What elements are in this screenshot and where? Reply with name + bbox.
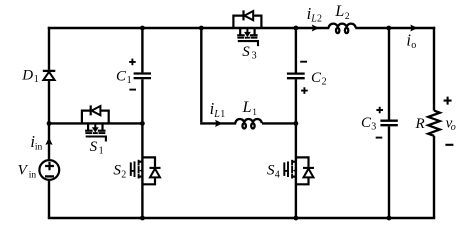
- svg-text:C: C: [311, 70, 322, 86]
- svg-text:in: in: [35, 143, 43, 153]
- svg-text:1: 1: [252, 107, 257, 117]
- svg-text:o: o: [451, 122, 456, 133]
- svg-text:4: 4: [275, 169, 280, 180]
- svg-text:C: C: [116, 69, 127, 85]
- svg-text:S: S: [242, 44, 250, 60]
- svg-text:D: D: [21, 68, 33, 84]
- svg-text:2: 2: [322, 77, 327, 88]
- svg-text:1: 1: [127, 75, 132, 86]
- svg-text:S: S: [113, 163, 121, 179]
- svg-text:3: 3: [371, 122, 376, 133]
- svg-text:R: R: [415, 116, 425, 132]
- svg-text:L: L: [334, 3, 344, 20]
- svg-text:S: S: [267, 163, 275, 179]
- svg-text:2: 2: [121, 169, 126, 180]
- svg-text:1: 1: [220, 109, 225, 120]
- svg-text:2: 2: [345, 12, 350, 22]
- svg-text:3: 3: [252, 51, 257, 62]
- svg-text:1: 1: [34, 74, 39, 85]
- svg-text:in: in: [29, 171, 37, 181]
- svg-text:o: o: [411, 40, 416, 51]
- svg-text:2: 2: [317, 14, 322, 25]
- svg-text:L: L: [242, 99, 252, 116]
- svg-text:1: 1: [99, 146, 104, 157]
- svg-text:S: S: [90, 139, 98, 155]
